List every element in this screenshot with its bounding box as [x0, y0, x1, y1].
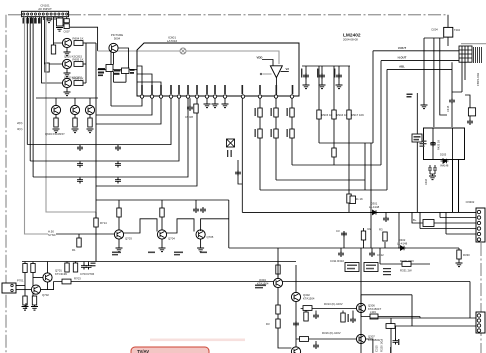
IC internal wire L2 — [137, 74, 152, 96]
wire y339 — [296, 338, 356, 340]
label R35 — [287, 108, 288, 137]
faint pink smear — [150, 339, 245, 342]
wire bus v3 — [32, 17, 34, 177]
resistor R13 — [74, 81, 83, 86]
svg-text:C9 R8: C9 R8 — [185, 115, 193, 119]
box U3 — [122, 68, 130, 74]
label U3 right — [130, 69, 135, 74]
svg-text:H.OUT: H.OUT — [398, 56, 407, 60]
svg-text:V2: V2 — [286, 67, 290, 71]
resistor R82 — [32, 262, 34, 264]
wire v x111 — [110, 50, 112, 106]
wire x361 — [360, 248, 362, 353]
resistor R52 — [384, 242, 386, 248]
wire y180 — [276, 179, 365, 181]
wire pin276 chain — [275, 98, 277, 180]
svg-text:KTA1504: KTA1504 — [303, 297, 315, 301]
ground R71 — [458, 259, 460, 263]
wire H-DY down legs — [453, 160, 459, 213]
capacitor C204 — [469, 116, 471, 119]
wire Q2 out — [83, 63, 86, 65]
svg-text:R714: R714 — [100, 221, 107, 225]
svg-text:R330: R330 — [463, 253, 470, 257]
label C420 — [420, 141, 427, 147]
wire rail y66 — [302, 65, 350, 67]
svg-text:KTA1504T: KTA1504T — [368, 307, 381, 311]
connector CN1 pin stubs — [24, 17, 67, 20]
ground sym Q2 — [64, 73, 71, 77]
resistor R44 — [347, 110, 351, 119]
wire op-amp out side — [281, 71, 289, 73]
capacitor C94 — [340, 248, 342, 251]
ground Q7 — [87, 129, 94, 133]
capacitor C92 — [315, 311, 317, 314]
ground pin207 — [204, 104, 211, 108]
B+ box — [423, 220, 434, 227]
transistor Q35 — [356, 334, 365, 343]
highlight pink box — [131, 347, 209, 353]
resistor R91 — [276, 305, 280, 314]
resistor R94 — [300, 337, 309, 342]
wire VDD L — [262, 60, 273, 66]
capacitor C32 — [189, 98, 191, 105]
resistor R12 — [74, 62, 83, 67]
fuse F401 — [412, 134, 422, 142]
diode D204 box — [444, 27, 453, 37]
ground Q13 — [200, 239, 202, 248]
capacitor C61 — [195, 200, 197, 207]
connector CN701 pins — [11, 284, 13, 291]
wire base Q2 — [45, 17, 63, 64]
wire nest y162 — [30, 98, 179, 161]
wire gray g2 — [46, 17, 96, 212]
coil L303 — [370, 314, 378, 319]
wire main left vertical — [95, 43, 97, 262]
wire pin215 drop — [214, 98, 216, 104]
ground R84 — [31, 307, 38, 311]
capacitor C97 — [393, 339, 399, 345]
svg-text:R313 (K)-100V: R313 (K)-100V — [324, 302, 343, 306]
wire pin207 drop — [206, 98, 208, 104]
wire D204 down — [447, 37, 449, 46]
label x417 top — [407, 94, 413, 98]
resistor R63 — [118, 200, 120, 208]
wire R53 to Q31 — [277, 274, 279, 278]
wire D206 up — [465, 95, 470, 108]
capacitor C93 — [315, 341, 317, 343]
transistor Q33 — [291, 292, 300, 301]
wire FBT feed 2 — [381, 60, 459, 62]
wire Q35 emitter out — [366, 339, 373, 353]
wire nest y176 — [33, 98, 188, 177]
wire pin225 drop — [224, 98, 226, 104]
capacitor C91 — [293, 321, 299, 327]
net label right — [255, 285, 266, 289]
resistor R81 — [24, 262, 26, 264]
transistor Q2 — [62, 59, 71, 68]
wire x365 — [364, 143, 366, 190]
wire y261 left — [22, 261, 296, 263]
wire op-amp apex down — [275, 78, 277, 96]
wire ladder 1 — [124, 219, 157, 233]
wire Q22 out riser — [41, 282, 54, 290]
wire pin243 drop — [241, 98, 243, 212]
H-DY inner wire 2 — [452, 128, 454, 160]
ground Q3 emitter — [66, 88, 68, 92]
diode D301 — [370, 210, 378, 214]
relay box K2 — [364, 263, 378, 272]
wire y143 — [319, 142, 373, 144]
transistor Q11 — [118, 217, 120, 230]
wire plus stub — [263, 73, 272, 75]
wire nest y106 — [111, 98, 142, 106]
capacitor C31 chain — [238, 160, 242, 184]
capacitor C23 — [77, 162, 83, 168]
IC internal wire L3 — [137, 82, 161, 96]
transistor Q31 — [273, 278, 282, 287]
resistor R11 — [74, 41, 83, 46]
svg-text:LL-4148: LL-4148 — [397, 242, 408, 246]
connector CN303 — [476, 312, 485, 333]
IC pin labels — [141, 85, 293, 94]
resistor R45 — [347, 194, 351, 203]
IC U1 box — [137, 43, 299, 96]
wire nest y200 — [96, 199, 229, 201]
capacitor C420 — [430, 141, 436, 147]
border dash-dot top — [8, 14, 448, 16]
wire nest y146 — [27, 98, 171, 144]
wire y27 to x97 — [70, 27, 98, 51]
svg-text:AV INPUT: AV INPUT — [38, 7, 52, 11]
wire Q4 out — [118, 48, 128, 68]
capacitor C72 — [88, 262, 90, 264]
resistor array RA1 — [57, 18, 64, 26]
connector CN1 pins — [23, 13, 68, 15]
transistor Q32 — [291, 347, 300, 353]
capacitor C41 — [305, 66, 307, 85]
svg-text:B+: B+ — [413, 218, 417, 222]
wire CN302 p5 — [446, 212, 476, 234]
resistor R83 — [23, 296, 27, 305]
label R31 — [255, 108, 256, 137]
transistor Q6 — [74, 98, 76, 105]
svg-text:TV/AV: TV/AV — [137, 349, 149, 353]
wire y318 — [370, 317, 476, 319]
resistor R53 drop to Q31 — [277, 262, 279, 266]
wire Q21 stub down — [47, 282, 49, 290]
resistor R93 — [305, 311, 307, 313]
resistor R31 — [258, 108, 262, 117]
svg-text:R606 1K: R606 1K — [73, 77, 84, 81]
transistor Q21 — [33, 277, 43, 279]
wire base Q3 — [42, 17, 63, 83]
label C42 — [317, 69, 318, 78]
wire R83 gnd — [24, 305, 26, 307]
box D206 — [468, 108, 475, 116]
wire bus v2 — [29, 17, 31, 161]
wire CN302 p2 — [440, 212, 476, 217]
svg-text:IN4148: IN4148 — [440, 164, 449, 168]
wire nest y186 — [96, 98, 197, 186]
resistor R41 — [317, 110, 321, 119]
wire R81 down — [24, 273, 26, 297]
wire chain x349 — [348, 66, 350, 212]
label C97 — [390, 339, 399, 353]
svg-text:KTC3199: KTC3199 — [55, 272, 67, 276]
label K1 — [347, 265, 357, 270]
wire R96 drop — [395, 326, 397, 339]
wire y281 long — [54, 281, 471, 283]
svg-text:Q603 KSC815Y: Q603 KSC815Y — [45, 132, 65, 136]
border dash-dot right — [480, 243, 482, 353]
ground RA1 — [56, 28, 63, 32]
flyback transformer T201 — [459, 46, 472, 62]
capacitor CA2 — [64, 24, 69, 29]
svg-text:C607: C607 — [64, 30, 71, 34]
svg-text:V.OUT: V.OUT — [398, 46, 407, 50]
wire y212 main — [242, 211, 476, 213]
wire Q21 stub up — [47, 262, 49, 273]
crystal X301 — [227, 139, 235, 147]
svg-text:LA7016: LA7016 — [167, 39, 178, 43]
resistor R33 — [274, 108, 278, 117]
capacitor CA1 — [64, 19, 69, 23]
ground Q5 — [53, 129, 60, 133]
wire Q34 emitter — [361, 313, 420, 318]
resistor R17 — [89, 115, 91, 118]
transistor Q5 — [55, 98, 57, 105]
svg-text:VDD: VDD — [257, 56, 263, 60]
wire R82 down — [32, 273, 34, 297]
resistor R32 — [258, 129, 262, 138]
resistor R42 — [332, 110, 336, 119]
capacitor C24 — [115, 162, 121, 168]
wire x373 — [372, 51, 374, 143]
resistor R96 on line — [386, 324, 395, 329]
H-DY box — [424, 128, 465, 160]
svg-text:D205: D205 — [440, 153, 447, 157]
wire cluster bottom — [114, 72, 127, 83]
svg-text:R316 (K)-100V: R316 (K)-100V — [322, 331, 341, 335]
wire y295 — [361, 295, 412, 326]
wire chain x334 — [333, 66, 335, 165]
capacitor C25 — [77, 178, 83, 184]
capacitor C95 — [371, 248, 373, 251]
wire ladder 3 — [201, 219, 229, 231]
flyback core hatch — [474, 47, 482, 63]
wire x452 down — [453, 159, 459, 212]
ground Q11 — [118, 239, 120, 248]
svg-text:C703 R706: C703 R706 — [80, 272, 95, 276]
transistor Q13 — [196, 230, 205, 239]
wire gray bus g0 — [25, 17, 49, 234]
wire x417 — [416, 93, 418, 212]
diode D205 — [441, 159, 449, 163]
resistor R64 — [161, 200, 163, 208]
svg-text:R917 10K: R917 10K — [352, 113, 365, 117]
diode D204 wire — [447, 15, 449, 28]
ground C43 — [336, 85, 343, 89]
svg-text:LL-4148: LL-4148 — [369, 205, 380, 209]
net labels on y261 bus — [112, 252, 207, 256]
svg-text:FB15-002: FB15-002 — [476, 72, 480, 86]
capacitor C51 — [343, 231, 345, 248]
svg-text:KTA1504: KTA1504 — [257, 282, 269, 286]
resistor R88 — [75, 262, 77, 264]
resistor R16 — [74, 115, 76, 118]
svg-text:CN302: CN302 — [466, 200, 475, 204]
wire x391 — [390, 318, 392, 353]
wire FBT feed 3 — [387, 68, 452, 70]
capacitor C62 — [200, 207, 206, 213]
wire ladder 2 — [167, 219, 194, 233]
wire gray FBT top — [461, 43, 486, 45]
svg-text:P701: P701 — [17, 279, 24, 283]
label R33 — [271, 108, 272, 137]
resistor R34 — [274, 129, 278, 138]
ground R83 — [22, 307, 29, 311]
resistor R84 — [32, 296, 36, 305]
svg-text:T204: T204 — [454, 28, 460, 32]
op-amp plus input — [260, 73, 262, 75]
wire FBT feed 1 — [373, 50, 459, 52]
svg-text:2(D): 2(D) — [17, 121, 23, 125]
wire CN701 pin1 — [16, 285, 25, 287]
ground Q6 — [72, 129, 79, 133]
diode D302 — [398, 246, 406, 250]
capacitor C43 — [338, 66, 340, 85]
wire pin260 chain — [259, 98, 261, 190]
svg-text:R331 2W: R331 2W — [400, 269, 412, 273]
capacitor C52 — [385, 212, 387, 216]
svg-text:ABL: ABL — [399, 65, 405, 69]
svg-text:Q702: Q702 — [42, 293, 49, 297]
resistor R87 — [66, 262, 68, 264]
wire nest y115 — [96, 98, 152, 115]
label box L301 — [350, 196, 356, 204]
wire pin292 chain — [291, 98, 293, 165]
svg-text:R320 1K: R320 1K — [380, 341, 384, 352]
transistor Q4 — [109, 43, 118, 52]
ground sym Q3 — [64, 92, 71, 96]
spark gap symbol — [180, 48, 186, 54]
connector CN1 — [22, 11, 69, 16]
pin label smudges under connector — [23, 18, 41, 24]
svg-text:C416: C416 — [425, 178, 428, 185]
wire CN701 pin2 — [16, 289, 31, 291]
wire CN302 p4 — [420, 212, 476, 228]
capacitor C22 — [115, 145, 121, 151]
wire cluster feed — [98, 69, 137, 71]
label X301 — [227, 150, 232, 157]
wire x434 — [433, 38, 435, 127]
wire Q4 emitter — [113, 53, 115, 65]
capacitor C422 below — [433, 165, 437, 174]
svg-text:3(C): 3(C) — [17, 127, 23, 131]
IC pin row — [140, 95, 293, 98]
IC internal wire L1 — [137, 66, 142, 96]
resistor R71 — [458, 248, 460, 250]
resistor R15 — [55, 115, 57, 118]
label C43 — [334, 69, 335, 78]
ground pin stub — [48, 17, 50, 19]
connector CN701 — [2, 283, 16, 293]
wire x387 — [386, 69, 388, 190]
transistor Q1 — [62, 38, 71, 47]
wire B+ p3 — [412, 212, 476, 223]
label R95 — [348, 314, 349, 322]
svg-text:Q703: Q703 — [125, 237, 132, 241]
capacitor C71 — [83, 262, 85, 264]
capacitor C21 — [77, 145, 83, 151]
ground C421 — [430, 174, 435, 176]
capacitor C201 — [451, 92, 453, 98]
transistor Q7 — [89, 98, 91, 105]
label C41 — [301, 69, 302, 78]
transistor ladder: base wire — [56, 233, 114, 235]
svg-text:2004-08-08: 2004-08-08 — [343, 37, 358, 41]
transistor Q34 — [356, 303, 365, 312]
wire bus v1 — [26, 17, 28, 145]
resistor R43 — [332, 148, 336, 157]
ground T201 — [421, 105, 428, 109]
svg-text:D204: D204 — [432, 28, 439, 32]
wire y326 — [386, 325, 476, 327]
resistor R37 — [194, 104, 198, 113]
op-amp U1a — [270, 66, 282, 78]
wire Q34 collector — [360, 295, 362, 304]
svg-text:5004: 5004 — [114, 37, 121, 41]
svg-text:C311 R310: C311 R310 — [330, 259, 344, 263]
wire y248 long — [229, 247, 459, 249]
capacitor C42 — [321, 66, 323, 85]
transistor Q12 — [161, 217, 163, 230]
svg-text:Q705: Q705 — [207, 235, 214, 239]
wire nest y124 — [96, 98, 161, 124]
svg-text:R703: R703 — [74, 277, 81, 281]
svg-text:R604 1K: R604 1K — [73, 37, 84, 41]
svg-text:C312: C312 — [377, 253, 384, 257]
svg-text:R3: R3 — [379, 228, 383, 232]
resistor R35 — [290, 108, 294, 117]
svg-text:C315: C315 — [375, 345, 379, 352]
wire R84 gnd — [34, 305, 36, 307]
label U2 left — [98, 68, 105, 76]
svg-text:R423 1K: R423 1K — [437, 140, 441, 150]
wire Q1 out — [83, 42, 96, 44]
wire x440 — [440, 38, 447, 115]
ground mid1 — [25, 303, 27, 309]
svg-text:R318 100V: R318 100V — [400, 259, 414, 263]
resistor R36 — [290, 129, 294, 138]
resistor R51 — [363, 228, 365, 248]
resistor R62 — [95, 212, 97, 218]
transistor Q22 — [31, 285, 40, 294]
resistor R61 — [78, 234, 80, 238]
wire y264 right — [380, 248, 430, 264]
svg-text:C415: C415 — [446, 105, 450, 112]
label U2 mid — [114, 70, 121, 75]
wire x371 — [370, 143, 372, 248]
ground pin215 — [212, 104, 219, 108]
ground Q2 emitter — [66, 69, 68, 73]
resistor R1 on base — [53, 43, 55, 45]
box U2 — [106, 65, 113, 72]
connector CN302 pins — [477, 210, 480, 241]
label K2 — [366, 265, 376, 270]
wire x470 — [469, 282, 471, 319]
transistor Q3 — [62, 78, 71, 87]
